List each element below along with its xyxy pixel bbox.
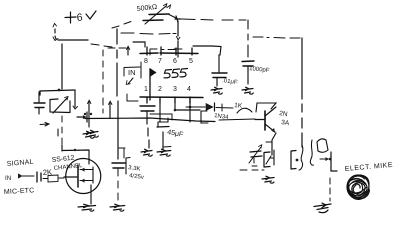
- wire bottom pin bus: [140, 96, 203, 99]
- drain lead: [80, 169, 93, 171]
- node +6V label: [53, 11, 96, 27]
- ground pin5 cap: [211, 87, 222, 94]
- channel bar: [77, 165, 79, 187]
- wire rail x178: [177, 21, 179, 57]
- capacitor C-pin2 45uF: [150, 103, 184, 149]
- loop component: [317, 139, 328, 152]
- wire dash-dot y49: [150, 49, 176, 55]
- wire bus y37 dash-dot to right corner: [253, 37, 300, 38]
- wire JFET top lead: [62, 145, 89, 164]
- connector bracket right: [291, 151, 296, 170]
- wire vertical x274: [270, 150, 274, 165]
- ground JFET: [78, 204, 96, 211]
- pin 4: [189, 97, 191, 103]
- svg-text:IN: IN: [5, 175, 11, 182]
- svg-text:6: 6: [76, 12, 83, 24]
- resistor 1K squiggle: [216, 102, 252, 113]
- gate lead: [64, 176, 77, 178]
- node junction: [175, 16, 181, 22]
- source lead: [80, 180, 93, 182]
- wire right rail x302: [301, 38, 303, 147]
- transistor Q1: [255, 107, 290, 132]
- wire dash y170: [240, 169, 264, 171]
- wire dashed rail x103: [102, 50, 104, 113]
- node flag marker: [150, 69, 156, 77]
- wire dash arrow x44: [40, 123, 49, 127]
- wire long base line y118: [85, 118, 215, 122]
- pin 3: [174, 97, 176, 103]
- wire pot right lead to bus: [169, 15, 177, 19]
- ground below pot: [87, 130, 98, 137]
- wire pot box top: [40, 90, 75, 95]
- potentiometer box: [50, 97, 70, 114]
- capacitor C-left: [34, 92, 45, 114]
- wire x88 vertical: [88, 102, 90, 127]
- wire JFET bottom lead: [90, 185, 92, 204]
- svg-text:2N: 2N: [279, 110, 289, 118]
- wire rail x117: [117, 29, 118, 159]
- svg-text:CHANNEL: CHANNEL: [54, 163, 84, 172]
- op-amp 555 IC: [140, 47, 203, 103]
- wiper arrow to bar: [77, 112, 87, 122]
- svg-text:4: 4: [187, 86, 191, 93]
- wire bus y33 dashed: [121, 33, 176, 34]
- IC left edge dash: [140, 62, 142, 78]
- wire dashed x62 lower: [61, 116, 63, 144]
- pin 5: [191, 48, 193, 55]
- capacitor C-pin5 .01uF: [212, 55, 238, 86]
- wire +6V drop: [55, 29, 56, 39]
- wire arrow to node: [320, 158, 328, 160]
- electret mike scribble: [347, 175, 370, 199]
- wire pin5 to capA: [193, 46, 221, 55]
- wire pin4 down: [189, 97, 191, 122]
- node bracket x201: [201, 111, 208, 123]
- wire left rail down: [61, 44, 63, 89]
- wire emitter down: [272, 133, 276, 155]
- pin 8: [146, 47, 148, 55]
- pin 1: [146, 97, 148, 103]
- svg-text:5: 5: [189, 58, 193, 65]
- wire squiggle S1: [299, 145, 303, 170]
- wire corner down x248: [247, 20, 249, 57]
- ground pin2: [157, 149, 171, 156]
- ground small above JFET: [83, 131, 94, 138]
- wire pin3 out: [175, 103, 200, 110]
- wire squiggle S2: [310, 140, 313, 165]
- wire arrow tick x128: [127, 47, 129, 55]
- svg-text:1000pF: 1000pF: [249, 66, 270, 74]
- wire dashes to x117: [91, 44, 112, 47]
- svg-text:ELECT. MIKE: ELECT. MIKE: [345, 162, 394, 173]
- wire to diode: [186, 106, 205, 108]
- capacitor C-1000pF: [242, 61, 270, 84]
- svg-text:45μF: 45μF: [167, 129, 184, 139]
- wire signal arrow: [22, 175, 34, 177]
- node dots: [84, 113, 86, 115]
- svg-text:7: 7: [158, 58, 162, 65]
- svg-text:3A: 3A: [281, 119, 291, 127]
- svg-text:2: 2: [158, 86, 162, 93]
- wire pot right lead: [74, 90, 76, 107]
- svg-text:SIGNAL: SIGNAL: [7, 159, 34, 168]
- svg-text:8: 8: [144, 58, 148, 65]
- pin 6: [175, 48, 177, 55]
- svg-text:500kΩ: 500kΩ: [136, 4, 157, 13]
- node IN boxed label: [124, 67, 141, 85]
- wire dashed down: [329, 178, 331, 201]
- node dot: [58, 89, 61, 92]
- pin 7: [160, 47, 162, 55]
- node supply junction arrow: [53, 37, 58, 41]
- wire top pin bus: [140, 52, 198, 55]
- capacitor bracket middle: [264, 152, 271, 167]
- wire pot left lead dashes: [112, 22, 131, 29]
- capacitor C x118: [112, 148, 144, 200]
- resistor 2K: [43, 167, 64, 182]
- transistor JFET circle: [64, 159, 101, 194]
- svg-text:3.3K: 3.3K: [128, 165, 141, 173]
- svg-text:4/25v: 4/25v: [129, 173, 144, 181]
- ground electro cluster: [262, 176, 274, 183]
- svg-text:MIC-ETC: MIC-ETC: [4, 187, 35, 196]
- wire top bus dashed to right: [182, 19, 246, 20]
- capacitor C-pin1: [140, 106, 155, 148]
- svg-text:1: 1: [144, 86, 148, 93]
- wire tick x58: [57, 129, 59, 136]
- svg-text:.01μF: .01μF: [222, 78, 238, 86]
- wire flag stem: [149, 69, 151, 100]
- svg-text:6: 6: [173, 58, 177, 65]
- capacitor trimmer left: [249, 145, 262, 166]
- wire dashes y48 left of 555: [108, 47, 126, 49]
- wire supply horizontal: [58, 39, 88, 41]
- ground pin1: [141, 149, 152, 156]
- svg-text:3: 3: [173, 86, 177, 93]
- pin 2: [159, 97, 161, 103]
- svg-text:IN: IN: [128, 68, 136, 77]
- wire x110 tick: [109, 103, 111, 118]
- capacitor coupling: [37, 172, 41, 182]
- potentiometer 500k top: [136, 4, 170, 24]
- wire vertical x331: [331, 152, 337, 171]
- ground 1000pF: [242, 87, 253, 94]
- wire collector loop: [256, 103, 276, 112]
- diode 1N34: [206, 103, 229, 121]
- ground below C x118: [110, 204, 125, 211]
- wire corner above pin8: [133, 42, 145, 47]
- wire corner left of pin1: [127, 94, 138, 101]
- ground bottom right scribble: [314, 203, 331, 213]
